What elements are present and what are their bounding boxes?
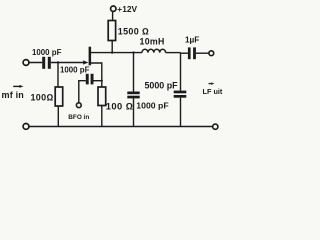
svg-text:1000 pF: 1000 pF: [60, 65, 90, 74]
junction R1/rail: [111, 51, 113, 53]
wire output node down to C5: [180, 53, 182, 91]
svg-text:BFO in: BFO in: [68, 114, 89, 121]
capacitor C4 1000 pF (drain bypass): [127, 92, 139, 95]
capacitor C6 1 uF: [188, 47, 191, 59]
svg-text:10mH: 10mH: [140, 36, 165, 46]
terminal common bottom-left: [23, 124, 29, 130]
svg-text:1000 pF: 1000 pF: [32, 48, 62, 57]
wire R1 to drain rail: [111, 41, 113, 53]
svg-text:LF uit: LF uit: [203, 87, 223, 96]
junction rail/C4: [132, 51, 134, 53]
wire source lead: [91, 63, 102, 87]
wire +12V terminal to R1: [112, 12, 114, 21]
terminal mf in: [23, 60, 29, 66]
wire gate node to R2: [57, 63, 59, 88]
capacitor C5 5000 pF: [174, 91, 187, 94]
wire rail down to C4: [133, 53, 135, 92]
svg-text:+12V: +12V: [117, 4, 137, 14]
wire C6 to LF terminal: [196, 52, 209, 54]
svg-text:1µF: 1µF: [185, 35, 199, 44]
arrow above LF uit: [209, 83, 213, 85]
svg-text:100Ω: 100Ω: [31, 92, 54, 102]
wire gate lead: [29, 62, 84, 64]
wire C4 to ground rail: [133, 98, 135, 126]
wire C2 to source node: [94, 80, 102, 82]
junction C2/source: [101, 80, 103, 82]
terminal BFO in: [76, 103, 81, 108]
transistor Q1 channel bar: [89, 47, 92, 66]
wire R3 to ground rail: [101, 106, 103, 127]
gate arrowhead: [83, 60, 88, 64]
arrow above mf in: [13, 85, 20, 87]
terminal +12V: [111, 6, 116, 11]
inductor L1 10 mH: [142, 49, 166, 52]
svg-text:5000 pF: 5000 pF: [145, 80, 179, 90]
svg-text:mf in: mf in: [2, 90, 25, 100]
capacitor C2 1000 pF (BFO coupling): [86, 74, 89, 85]
terminal common bottom-right: [213, 124, 218, 129]
wire L1 to output node: [166, 52, 181, 54]
svg-text:1500 Ω: 1500 Ω: [118, 27, 149, 37]
wire C5 to ground rail: [180, 98, 182, 127]
wire output node to C6: [181, 52, 188, 54]
resistor R2 100 ohm: [55, 87, 63, 106]
capacitor C1 1000 pF (mf coupling): [42, 57, 45, 69]
wire BFO terminal up to C2: [79, 81, 86, 103]
wire drain rail: [91, 52, 142, 54]
wire R2 to ground rail: [57, 106, 59, 127]
wire ground rail: [29, 126, 213, 128]
resistor R3 100 ohm (source): [98, 87, 106, 106]
svg-text:100 Ω: 100 Ω: [106, 100, 133, 111]
svg-text:1000 pF: 1000 pF: [136, 101, 168, 111]
terminal LF uit: [209, 51, 214, 56]
resistor R1 1500 ohm: [108, 21, 115, 41]
junction gate node / R2: [57, 61, 59, 63]
